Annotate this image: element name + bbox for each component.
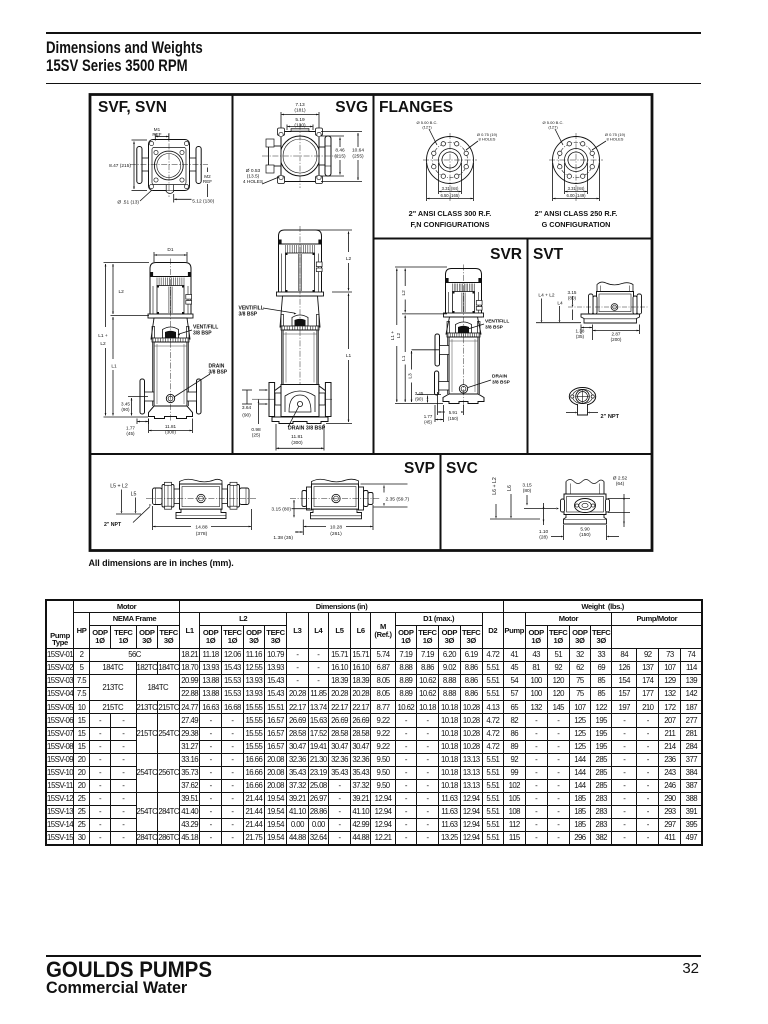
panel divider SVR/SVT <box>527 239 529 455</box>
svg-text:G CONFIGURATION: G CONFIGURATION <box>542 220 611 229</box>
panel divider SVF/SVG <box>232 95 234 455</box>
svg-text:8 HOLES: 8 HOLES <box>479 137 496 142</box>
svg-text:(261): (261) <box>330 531 342 537</box>
SVP pump 1 <box>146 479 256 518</box>
SVR DRAIN label <box>468 374 511 388</box>
svg-text:8 HOLES: 8 HOLES <box>607 137 624 142</box>
SVC dim 3.15 <box>522 483 559 510</box>
svg-text:(150): (150) <box>579 532 591 538</box>
svg-text:3/8 BSP: 3/8 BSP <box>209 370 228 376</box>
svg-text:L5 + L2: L5 + L2 <box>110 484 128 490</box>
svg-text:REF: REF <box>203 179 212 184</box>
SVC dim 1.10 <box>539 503 549 541</box>
svg-text:3.15 (80): 3.15 (80) <box>271 507 291 513</box>
svg-text:0.98: 0.98 <box>251 427 261 433</box>
svg-text:L1: L1 <box>111 364 117 370</box>
SVG volute/casing <box>252 383 332 424</box>
svg-text:L4: L4 <box>557 301 563 307</box>
svg-text:L6: L6 <box>507 485 513 491</box>
flange drawing 300RF <box>423 133 477 201</box>
svg-text:(13.5): (13.5) <box>247 174 260 180</box>
svg-text:(45): (45) <box>424 419 432 424</box>
svg-text:3.15: 3.15 <box>568 290 577 295</box>
svg-text:SVR: SVR <box>490 246 522 263</box>
heading line 2 <box>46 57 188 76</box>
svg-text:L3: L3 <box>408 373 414 379</box>
SVF/SVN top view dimensions <box>109 127 215 206</box>
svg-text:7.13: 7.13 <box>295 102 305 108</box>
svg-text:(150): (150) <box>448 416 459 421</box>
svg-text:(90): (90) <box>415 396 423 401</box>
svg-text:(215): (215) <box>334 154 346 160</box>
svg-text:(28): (28) <box>539 535 548 541</box>
svg-text:4 HOLES: 4 HOLES <box>243 179 263 185</box>
SVF/SVN DRAIN label <box>174 364 228 398</box>
SVG front view pump <box>270 226 330 402</box>
svg-text:8.47 (215): 8.47 (215) <box>109 163 131 169</box>
svg-text:SVG: SVG <box>335 99 368 116</box>
SVT 2" NPT label <box>566 412 620 420</box>
svg-text:(378): (378) <box>196 531 208 537</box>
svg-text:2.35 (59.7): 2.35 (59.7) <box>386 496 410 502</box>
divider above SVP/SVC <box>90 453 653 455</box>
SVG VENT/FILL label <box>239 306 297 318</box>
svg-text:Ø 0.53: Ø 0.53 <box>246 168 261 174</box>
svg-text:(130): (130) <box>294 123 306 129</box>
svg-text:2" NPT: 2" NPT <box>601 414 620 420</box>
svg-text:(25): (25) <box>252 433 261 439</box>
svg-text:DRAIN: DRAIN <box>492 374 508 380</box>
svg-text:VENT/FILL: VENT/FILL <box>239 306 264 312</box>
svg-text:(90): (90) <box>121 407 130 412</box>
panel divider SVP/SVC <box>440 454 442 550</box>
flange 250RF annotations <box>543 120 626 201</box>
svg-text:3/8 BSP: 3/8 BSP <box>193 331 212 337</box>
svg-text:3.64: 3.64 <box>242 405 252 411</box>
svg-text:11.81: 11.81 <box>165 424 177 429</box>
svg-text:DRAIN: DRAIN <box>209 364 225 370</box>
SVF/SVN top view flange body <box>130 133 208 197</box>
svg-text:L4 + L2: L4 + L2 <box>538 293 554 299</box>
flange drawing 250RF <box>549 133 603 201</box>
svg-text:5.90: 5.90 <box>580 527 590 533</box>
SVR VENT/FILL label <box>466 319 509 331</box>
svg-text:2" NPT: 2" NPT <box>104 522 122 528</box>
svg-text:14.88: 14.88 <box>195 525 208 531</box>
svg-text:(90): (90) <box>242 412 251 418</box>
footer brand <box>46 957 212 983</box>
svg-text:(35): (35) <box>576 334 585 339</box>
svg-text:11.81: 11.81 <box>291 434 303 440</box>
SVP pump 2 <box>290 479 380 519</box>
svg-text:3/8 BSP: 3/8 BSP <box>485 325 504 331</box>
svg-text:Ø .51 (13): Ø .51 (13) <box>117 200 139 206</box>
svg-text:SVT: SVT <box>533 246 564 263</box>
svg-text:SVC: SVC <box>446 460 478 477</box>
svg-text:DRAIN 3/8 BSP: DRAIN 3/8 BSP <box>288 426 326 432</box>
svg-text:L2: L2 <box>401 290 407 296</box>
SVF/SVN D1 dim <box>154 247 187 262</box>
svg-text:(80): (80) <box>523 488 532 494</box>
svg-text:(181): (181) <box>294 108 306 114</box>
svg-text:L1: L1 <box>346 353 352 359</box>
flange 300RF annotations <box>417 120 498 201</box>
thin rule under heading <box>46 83 701 84</box>
SVP pump1 dims <box>104 484 252 537</box>
SVT oval flange <box>569 388 595 416</box>
svg-text:(64): (64) <box>616 481 625 487</box>
svg-text:FLANGES: FLANGES <box>379 99 453 116</box>
svg-text:L1 +: L1 + <box>98 333 108 339</box>
svg-text:1.77: 1.77 <box>126 426 135 431</box>
figure outer border <box>90 95 652 551</box>
svg-text:2" ANSI CLASS 300 R.F.: 2" ANSI CLASS 300 R.F. <box>409 209 492 218</box>
svg-text:SVP: SVP <box>404 460 435 477</box>
SVR pump <box>435 265 484 406</box>
svg-text:L6 + L2: L6 + L2 <box>492 477 498 495</box>
SVT side view pump <box>568 282 648 323</box>
svg-text:Ø 2.52: Ø 2.52 <box>613 476 628 482</box>
svg-text:1.38: 1.38 <box>576 329 585 334</box>
svg-text:(127): (127) <box>548 125 558 130</box>
SVG dims right L1 L2 <box>302 230 352 424</box>
svg-text:1.77: 1.77 <box>424 414 433 419</box>
svg-text:(127): (127) <box>422 125 432 130</box>
svg-text:L2: L2 <box>346 256 352 262</box>
SVG top view dimensions <box>243 102 364 185</box>
page number <box>669 960 699 977</box>
svg-text:L2: L2 <box>100 341 106 347</box>
SVG dims bottom <box>242 389 326 450</box>
svg-text:5.91: 5.91 <box>449 410 458 415</box>
svg-text:6.50 (165): 6.50 (165) <box>440 193 460 198</box>
svg-text:(45): (45) <box>126 431 135 436</box>
svg-text:3.45: 3.45 <box>415 391 424 396</box>
SVR dimension lines <box>390 267 463 424</box>
svg-text:L2: L2 <box>119 289 125 295</box>
svg-text:2.87: 2.87 <box>612 332 621 337</box>
svg-text:L1 +: L1 + <box>390 331 396 341</box>
svg-text:3.15: 3.15 <box>522 483 532 489</box>
svg-text:D1: D1 <box>167 247 173 253</box>
top rule <box>46 32 701 34</box>
SVC dim 5.90 <box>551 525 619 540</box>
SVR lower-left flange <box>435 371 450 395</box>
SVC dim L6+L2 <box>490 477 540 519</box>
SVG top view flange body <box>262 124 338 188</box>
svg-text:L5: L5 <box>131 492 137 498</box>
svg-text:SVF, SVN: SVF, SVN <box>98 99 167 116</box>
svg-text:3/8 BSP: 3/8 BSP <box>239 312 258 318</box>
SVC pump drawing <box>561 480 610 525</box>
svg-text:10.64: 10.64 <box>352 148 364 154</box>
svg-text:VENT/FILL: VENT/FILL <box>193 325 218 331</box>
svg-text:1.38 (35): 1.38 (35) <box>273 535 293 541</box>
svg-text:(300): (300) <box>291 440 303 446</box>
svg-text:6.00 (149): 6.00 (149) <box>566 193 586 198</box>
SVT dims <box>536 290 640 342</box>
svg-text:F,N CONFIGURATIONS: F,N CONFIGURATIONS <box>411 220 490 229</box>
svg-text:(255): (255) <box>352 154 364 160</box>
svg-text:L2: L2 <box>396 333 402 339</box>
SVC dim 2.52 <box>608 476 630 528</box>
SVP pump2 dims <box>271 484 409 541</box>
SVF/SVN front view pump <box>140 259 201 421</box>
svg-text:10.28: 10.28 <box>330 525 343 531</box>
svg-text:1.10: 1.10 <box>539 529 549 535</box>
SVF/SVN VENT/FILL label <box>178 325 219 337</box>
SVF/SVN left dimension lines <box>98 263 192 437</box>
svg-text:3.31 (84): 3.31 (84) <box>442 186 459 191</box>
svg-text:VENT/FILL: VENT/FILL <box>485 319 509 325</box>
note: all dimensions <box>89 558 234 568</box>
svg-text:L1: L1 <box>401 355 407 361</box>
svg-text:3/8 BSP: 3/8 BSP <box>492 380 511 386</box>
svg-text:2" ANSI CLASS 250 R.F.: 2" ANSI CLASS 250 R.F. <box>535 209 618 218</box>
svg-text:3.45: 3.45 <box>121 402 130 407</box>
svg-text:(200): (200) <box>611 337 622 342</box>
divider below FLANGES <box>374 238 653 240</box>
svg-text:3.31 (84): 3.31 (84) <box>568 186 585 191</box>
panel divider SVG/FLANGES <box>373 95 375 455</box>
svg-text:5.19: 5.19 <box>295 117 305 123</box>
heading line 1 <box>46 39 203 58</box>
svg-text:5.12 (130): 5.12 (130) <box>192 199 214 205</box>
footer rule <box>46 955 702 958</box>
svg-text:8.46: 8.46 <box>335 148 345 154</box>
